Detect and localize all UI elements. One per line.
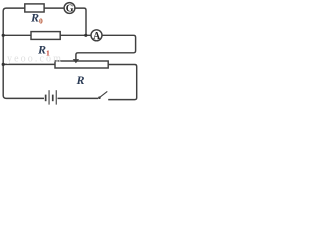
battery cell 1 long plate <box>49 90 50 104</box>
svg-text:R: R <box>76 73 85 87</box>
svg-text:A: A <box>93 31 101 42</box>
wire: row 2 from left rail to R1 <box>3 34 31 36</box>
wire: left rail with top-left and bottom-left corners, top wire to R0, bottom wire to battery <box>3 8 44 98</box>
resistor R0 <box>25 4 44 12</box>
rheostat R body <box>55 61 108 68</box>
svg-text:yeoo.com: yeoo.com <box>7 54 63 65</box>
battery cell 2 short plate <box>52 95 54 102</box>
battery cell 1 short plate <box>45 95 47 102</box>
wire: ammeter right, down right rail, left along y=53, down to rheostat wiper <box>76 35 136 59</box>
battery cell 2 long plate <box>56 90 57 104</box>
wire: battery to switch pivot <box>58 97 99 99</box>
ammeter U A <box>91 30 102 41</box>
wire: G right, corner down to node at row 2 <box>75 8 86 35</box>
wire: row 3 from left rail to rheostat <box>3 63 55 65</box>
galvanometer U G <box>64 3 75 14</box>
node: junction dot left rail row 2 <box>2 34 5 37</box>
svg-text:R0: R0 <box>30 11 43 26</box>
node: junction dot row 2 before ammeter <box>84 34 87 37</box>
wire: rheostat right stub, lower right rail, bottom wire to switch contact <box>108 65 137 100</box>
wire: R1 to ammeter <box>60 34 91 36</box>
wire: R0 to galvanometer <box>44 7 64 9</box>
rheostat wiper arrow <box>73 59 79 63</box>
circuit schematic: battery + switch, rheostat R, R1 with ammeter A, R0 with galvanometer G <box>0 0 140 110</box>
svg-text:R1: R1 <box>37 43 50 58</box>
svg-text:G: G <box>66 4 74 15</box>
resistor R1 <box>31 32 60 40</box>
switch lever <box>100 91 107 97</box>
switch pivot dot <box>98 96 101 99</box>
node: junction dot left rail row 3 <box>2 63 5 66</box>
